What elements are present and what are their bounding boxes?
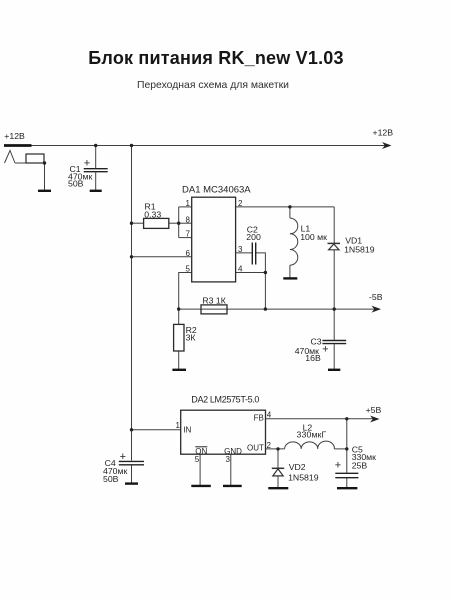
wire DA1 pin 8 <box>179 222 192 224</box>
wire L2 right to node <box>334 448 347 450</box>
svg-text:Блок питания RK_new V1.03: Блок питания RK_new V1.03 <box>88 48 343 68</box>
svg-text:FB: FB <box>254 413 264 422</box>
resistor R3 body <box>201 305 227 314</box>
svg-text:1: 1 <box>175 421 180 430</box>
ground DA2 pin5 <box>191 485 211 487</box>
capacitor C1 plates <box>84 168 108 170</box>
svg-text:IN: IN <box>183 425 191 434</box>
node jack-ground <box>43 161 46 164</box>
ground L1 <box>283 277 297 279</box>
resistor R2 body <box>174 324 184 351</box>
svg-text:2: 2 <box>267 441 272 450</box>
wire bus to DA2 IN <box>132 429 181 431</box>
svg-text:+: + <box>335 460 341 472</box>
svg-text:7: 7 <box>186 230 191 239</box>
node FB +5V <box>345 417 348 420</box>
svg-text:50В: 50В <box>103 474 119 484</box>
wire -5V rail <box>179 308 378 310</box>
svg-text:R3 1К: R3 1К <box>202 296 226 306</box>
svg-text:+12В: +12В <box>4 131 25 141</box>
svg-text:0.33: 0.33 <box>144 209 161 219</box>
ground C4 <box>125 482 138 484</box>
wire VD2 top lead <box>277 449 279 468</box>
svg-text:2: 2 <box>238 199 243 208</box>
wire pin4 node down to -5V rail <box>264 273 266 310</box>
IC DA2 LM2575T body <box>181 410 266 454</box>
wire L1 bottom lead <box>289 265 291 278</box>
wire VD1 vertical top <box>333 207 335 244</box>
node VD2 OUT <box>276 447 279 450</box>
node C1 top <box>94 144 97 147</box>
wire R1 to pin bus <box>169 222 179 224</box>
ground VD2 <box>268 487 288 489</box>
wire C3 top lead <box>333 309 335 340</box>
svg-text:3: 3 <box>238 245 243 254</box>
svg-text:Переходная схема для макетки: Переходная схема для макетки <box>137 80 289 91</box>
ground C5 <box>337 487 357 489</box>
node bus DA2 IN <box>130 428 133 431</box>
svg-text:4: 4 <box>238 265 243 274</box>
wire C4 bottom lead <box>131 466 133 484</box>
diode VD2 <box>272 467 284 469</box>
connector X1 jack tip <box>5 151 16 164</box>
wire jack down <box>44 163 46 190</box>
svg-text:4: 4 <box>267 411 272 420</box>
wire +12V thick input segment <box>4 144 32 147</box>
wire main +12V bus vertical <box>131 146 133 461</box>
op-amp U1: IC DA1 MC34063A body <box>192 197 236 282</box>
svg-text:OUT: OUT <box>247 443 264 452</box>
node bus pin6 <box>130 255 133 258</box>
wire jack to sleeve <box>15 162 45 164</box>
svg-text:1N5819: 1N5819 <box>344 245 375 255</box>
node -5V pin4 <box>264 307 267 310</box>
wire DA2 OUT to L2 <box>266 448 285 450</box>
wire DA1 pin 2 to L1 and VD1 <box>236 206 335 208</box>
svg-text:VD2: VD2 <box>289 462 306 472</box>
svg-text:1: 1 <box>186 199 191 208</box>
svg-text:C3: C3 <box>311 337 322 347</box>
wire C5 top lead <box>346 449 348 473</box>
node R2 R3 <box>177 307 180 310</box>
svg-text:5: 5 <box>186 265 191 274</box>
connector X1 sleeve body <box>26 154 44 163</box>
node R1 pin8 <box>177 222 180 225</box>
node -5V VD1 C3 <box>333 307 336 310</box>
ground jack <box>38 190 51 192</box>
ground C1 <box>90 190 102 192</box>
svg-text:+: + <box>322 344 328 356</box>
svg-text:50В: 50В <box>68 178 84 188</box>
wire R2 top lead <box>178 309 180 324</box>
wire DA1 pin 5 <box>179 273 192 310</box>
wire C5 bottom lead <box>346 478 348 488</box>
ground R2 <box>172 369 186 371</box>
wire DA2 FB to +5V <box>266 418 378 420</box>
svg-text:3К: 3К <box>186 332 197 342</box>
arrow +12V <box>382 142 392 149</box>
svg-text:DA2 LM2575T-5.0: DA2 LM2575T-5.0 <box>191 395 259 405</box>
resistor R1 body <box>144 218 169 228</box>
inductor L1 coil <box>290 218 298 265</box>
capacitor C2 plates <box>251 243 253 265</box>
node bus top <box>130 144 133 147</box>
arrow -5V <box>372 306 382 313</box>
capacitor C4 plates <box>119 460 144 462</box>
svg-text:DA1 MC34063A: DA1 MC34063A <box>182 184 251 195</box>
diode VD1 <box>328 242 341 244</box>
capacitor C3 plates <box>322 340 346 342</box>
wire DA1 pin 7 <box>179 237 192 239</box>
svg-text:8: 8 <box>186 215 191 224</box>
arrow +5V <box>370 416 380 423</box>
wire VD1 vertical bottom <box>333 250 335 309</box>
svg-text:5: 5 <box>195 455 200 464</box>
svg-text:6: 6 <box>186 249 191 258</box>
wire DA1 pin 1 <box>179 206 192 208</box>
wire C2 right to pin4 node <box>256 253 266 273</box>
wire VD2 bottom lead <box>277 476 279 488</box>
svg-text:16В: 16В <box>305 353 321 363</box>
wire DA2 pin5 ON down <box>199 454 201 485</box>
wire L1 top lead <box>289 207 291 218</box>
ground C3 <box>328 369 340 371</box>
svg-text:3: 3 <box>226 455 231 464</box>
node L1 top <box>288 205 291 208</box>
wire R2 bottom lead <box>178 351 180 369</box>
svg-text:25В: 25В <box>352 461 368 471</box>
wire bus to DA1 pin 6 <box>132 256 192 258</box>
wire bus to R1 <box>132 222 144 224</box>
svg-text:+12В: +12В <box>373 128 394 138</box>
svg-text:-5В: -5В <box>369 292 383 302</box>
wire C3 bottom lead <box>333 344 335 369</box>
wire C1 bottom <box>95 172 97 190</box>
wire DA1 pin 4 <box>236 272 266 274</box>
node bus R1 <box>130 222 133 225</box>
node C2 pin4 <box>264 271 267 274</box>
svg-text:+5В: +5В <box>366 405 382 415</box>
ground DA2 pin3 <box>223 485 242 487</box>
wire C1 top <box>95 146 97 169</box>
wire +12V rail <box>4 145 388 147</box>
wire DA1 pins 1-8-7 bus <box>178 207 180 238</box>
svg-text:200: 200 <box>246 232 261 242</box>
wire DA1 pin 3 to C2 <box>236 252 253 254</box>
node L2 C5 <box>345 447 348 450</box>
wire +5V node vertical <box>346 419 348 449</box>
svg-text:330мкГ: 330мкГ <box>297 429 327 439</box>
capacitor C5 plates <box>335 472 358 474</box>
svg-text:1N5819: 1N5819 <box>288 473 319 483</box>
svg-text:100 мк: 100 мк <box>300 232 327 242</box>
wire DA2 pin3 GND down <box>230 454 232 485</box>
inductor L2 coil <box>285 441 335 449</box>
svg-text:+: + <box>84 158 90 170</box>
svg-text:+: + <box>120 451 126 463</box>
